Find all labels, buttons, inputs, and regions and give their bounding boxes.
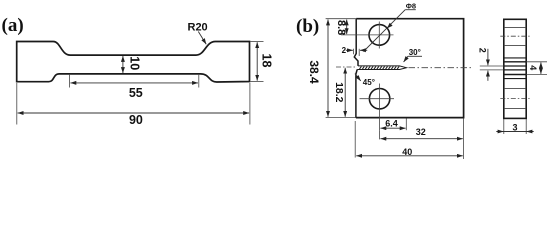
dimension 32 line bbox=[380, 138, 462, 140]
Phi8 leader arrowhead bbox=[387, 23, 393, 29]
R20 leader arrow bbox=[198, 32, 206, 45]
dimension 2 side lower segment bbox=[487, 71, 489, 81]
plate left edge above notch bbox=[354, 19, 358, 66]
dimension 2 notch tick right bbox=[358, 49, 360, 56]
side view slot line 4 bbox=[504, 69, 526, 71]
dimension 2 notch right segment bbox=[360, 49, 367, 51]
dimension 90 extension lines bbox=[16, 83, 18, 125]
notch centerline left stub bbox=[336, 66, 356, 68]
notch slot hatch dashes bbox=[360, 66, 362, 69]
svg-text:Φ8: Φ8 bbox=[406, 2, 416, 11]
plate right top bottom edges bbox=[356, 19, 464, 118]
Phi8 leader line bbox=[364, 10, 406, 52]
dimension 10 arrow bbox=[122, 56, 124, 73]
svg-text:6.4: 6.4 bbox=[385, 119, 398, 129]
top hole vertical centerline bbox=[378, 22, 380, 49]
svg-text:4: 4 bbox=[528, 65, 538, 70]
Phi8 underline bbox=[405, 9, 416, 11]
svg-text:18.2: 18.2 bbox=[333, 82, 345, 103]
side view outline bbox=[504, 19, 526, 118]
dimension 18.2 line bbox=[344, 68, 346, 117]
svg-text:R20: R20 bbox=[188, 22, 208, 34]
svg-text:2: 2 bbox=[478, 48, 488, 53]
dimension 18 extension lines bbox=[250, 40, 263, 42]
dimension 2 side extension lines bbox=[480, 65, 504, 67]
side view bottom hole centerline bbox=[500, 97, 529, 99]
dimension 6.4 line bbox=[380, 127, 405, 129]
side view slot line 1 bbox=[504, 57, 526, 59]
dimension 32 left extension bbox=[379, 131, 381, 140]
top hole horizontal centerline bbox=[341, 34, 394, 36]
top hole bbox=[369, 25, 390, 46]
bottom hole bbox=[369, 89, 389, 109]
svg-text:90: 90 bbox=[129, 113, 143, 127]
side view top hole tangent lines bbox=[504, 27, 526, 29]
bottom edge extension line bbox=[326, 117, 356, 119]
dimension 4 line bbox=[540, 62, 542, 74]
side view slot line 3 bbox=[504, 65, 526, 67]
dimension 55 extension lines bbox=[69, 75, 71, 88]
svg-text:(b): (b) bbox=[296, 16, 319, 37]
bottom hole horizontal centerline bbox=[360, 98, 395, 100]
dimension 6.4 right extension bbox=[405, 118, 407, 130]
dimension 3 arrowhead left bbox=[498, 130, 504, 134]
svg-text:8.8: 8.8 bbox=[335, 20, 347, 35]
svg-text:18: 18 bbox=[260, 54, 274, 68]
dimension 2 notch tick left bbox=[353, 49, 355, 54]
plate left edge below notch bbox=[356, 70, 357, 118]
side view slot line 6 bbox=[504, 78, 526, 80]
top edge extension line bbox=[326, 18, 357, 20]
dogbone specimen outline bbox=[17, 42, 250, 83]
dimension 8.8 line bbox=[346, 20, 348, 35]
dimension 3 line bbox=[496, 131, 533, 133]
dimension 55 line bbox=[70, 82, 198, 84]
svg-text:40: 40 bbox=[402, 147, 412, 157]
svg-text:38.4: 38.4 bbox=[307, 60, 321, 84]
svg-text:3: 3 bbox=[512, 123, 517, 133]
side view slot line 2 bbox=[504, 61, 526, 63]
angle 45 leader bbox=[355, 74, 361, 81]
dimension 90 line bbox=[18, 112, 250, 114]
angle 30 underline bbox=[408, 55, 422, 57]
svg-text:2: 2 bbox=[342, 46, 347, 55]
svg-text:32: 32 bbox=[416, 127, 426, 137]
dimension 18 line bbox=[256, 42, 258, 80]
dimension 3 arrowhead right bbox=[526, 130, 532, 134]
dimension 40 line bbox=[356, 155, 463, 157]
dimension 4 extension lines bbox=[526, 61, 547, 63]
svg-text:10: 10 bbox=[127, 56, 141, 70]
dimension 3 extension lines bbox=[503, 119, 505, 134]
svg-text:45°: 45° bbox=[363, 78, 375, 87]
dimension 2 side upper segment bbox=[487, 49, 489, 66]
notch slot outline bbox=[357, 66, 406, 70]
notch centerline right bbox=[409, 67, 473, 69]
bottom hole vertical centerline bbox=[379, 84, 381, 131]
side view slot line 5 bbox=[504, 74, 526, 76]
svg-text:(a): (a) bbox=[2, 15, 24, 36]
dimension 32 right extension bbox=[463, 118, 465, 159]
side view bottom hole tangent lines bbox=[504, 88, 526, 90]
dimension 40 left extension bbox=[354, 121, 356, 158]
svg-text:55: 55 bbox=[129, 86, 143, 100]
side view top hole centerline bbox=[500, 35, 529, 37]
dimension 2 notch left segment bbox=[346, 49, 353, 51]
angle 30 leader bbox=[404, 56, 408, 62]
dimension 38.4 line bbox=[327, 20, 329, 117]
